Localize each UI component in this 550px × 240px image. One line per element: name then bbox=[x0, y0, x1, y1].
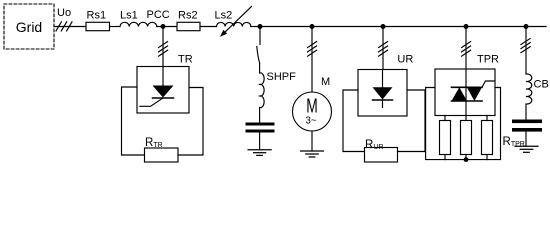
wire: capacitor to ground bbox=[259, 133, 261, 150]
wire: capacitor to ground bbox=[525, 132, 527, 147]
capacitor CB bbox=[512, 120, 542, 132]
ground M bbox=[301, 151, 324, 157]
ground CB bbox=[515, 146, 538, 152]
svg-text:Rs1: Rs1 bbox=[87, 10, 107, 22]
wire: coil to capacitor bbox=[525, 104, 527, 120]
3-phase slash TR feeder bbox=[159, 42, 168, 57]
wires: resistors to star point bbox=[445, 155, 487, 160]
3-phase slash M feeder bbox=[308, 42, 317, 57]
inductor Ls1 bbox=[120, 22, 157, 26]
resistor R_TPR phase b bbox=[461, 121, 472, 155]
resistor Rs2 bbox=[177, 22, 200, 30]
svg-text:TR: TR bbox=[178, 54, 193, 66]
grid source box bbox=[4, 4, 54, 49]
node bus-UR bbox=[381, 24, 386, 29]
variable-arrow across Ls2 bbox=[220, 7, 252, 37]
svg-text:TPR: TPR bbox=[477, 54, 499, 66]
svg-text:Grid: Grid bbox=[16, 19, 42, 35]
wire: TPR left tap bbox=[426, 88, 501, 160]
triac symbol bbox=[452, 69, 495, 116]
filter inductor SHPF bbox=[260, 73, 265, 108]
svg-text:M: M bbox=[321, 76, 330, 88]
resistor R_TPR phase a bbox=[440, 121, 451, 155]
wire: TR right tap bbox=[178, 88, 203, 156]
3-phase slash on feeder bbox=[56, 22, 72, 31]
resistor R_TR bbox=[145, 148, 179, 162]
node bus-CB bbox=[524, 24, 529, 29]
wire: Ls1 to PCC bbox=[157, 26, 177, 28]
wire: coil to capacitor bbox=[259, 108, 261, 123]
triac regulator box TPR bbox=[435, 69, 495, 116]
resistor R_UR bbox=[365, 148, 398, 163]
wire: UR right tap bbox=[398, 90, 426, 152]
ground SHPF bbox=[248, 150, 271, 156]
wire: bus down to UR bbox=[382, 27, 384, 70]
main bus bbox=[260, 26, 546, 28]
3-phase slash TPR feeder bbox=[462, 42, 471, 57]
svg-text:UR: UR bbox=[397, 54, 413, 66]
svg-text:CB: CB bbox=[534, 79, 549, 91]
wire: UR left tap bbox=[343, 90, 365, 152]
wire: TR left tap bbox=[122, 87, 145, 155]
thyristor symbol bbox=[140, 67, 174, 107]
wire: Rs1 to Ls1 bbox=[110, 26, 121, 28]
wire: bus down to TPR bbox=[465, 27, 467, 70]
diode rectifier box UR bbox=[358, 70, 407, 117]
wire: bus down to motor bbox=[311, 27, 313, 93]
svg-text:Uo: Uo bbox=[57, 7, 71, 19]
3-phase slash CB feeder bbox=[521, 39, 530, 53]
inductor Ls2 bbox=[217, 22, 251, 26]
svg-text:Ls2: Ls2 bbox=[215, 9, 233, 21]
filter capacitor bbox=[246, 123, 275, 133]
wire: Rs2 to Ls2 bbox=[200, 26, 217, 28]
svg-text:3~: 3~ bbox=[306, 115, 317, 127]
wire: TPR box to load resistors bbox=[445, 116, 487, 121]
capacitor-bank inductor CB bbox=[526, 74, 532, 104]
svg-text:SHPF: SHPF bbox=[267, 71, 297, 83]
node PCC bbox=[161, 24, 166, 29]
node bus-M bbox=[310, 24, 315, 29]
svg-text:PCC: PCC bbox=[147, 9, 170, 21]
node bus-SHPF bbox=[258, 24, 263, 29]
wire: PCC down to TR bbox=[162, 27, 164, 67]
node star point bbox=[464, 157, 469, 162]
resistor Rs1 bbox=[86, 22, 110, 30]
wire: Ls2 to bus bbox=[251, 26, 260, 28]
svg-text:Rs2: Rs2 bbox=[178, 9, 198, 21]
wire: bus down to CB bbox=[525, 27, 527, 75]
wire: motor to ground bbox=[311, 131, 313, 151]
motor M bbox=[293, 92, 332, 131]
resistor R_TPR phase c bbox=[482, 121, 493, 155]
wire: bus down to SHPF switch bbox=[259, 27, 261, 45]
wire: grid to Rs1 bbox=[54, 26, 86, 28]
svg-text:Ls1: Ls1 bbox=[120, 10, 138, 22]
switch SHPF bbox=[257, 47, 260, 64]
wire: switch to coil bbox=[259, 63, 261, 73]
3-phase slash UR feeder bbox=[379, 42, 388, 57]
thyristor rectifier box TR bbox=[137, 67, 189, 114]
node bus-TPR bbox=[464, 24, 469, 29]
diode symbol bbox=[373, 70, 393, 108]
